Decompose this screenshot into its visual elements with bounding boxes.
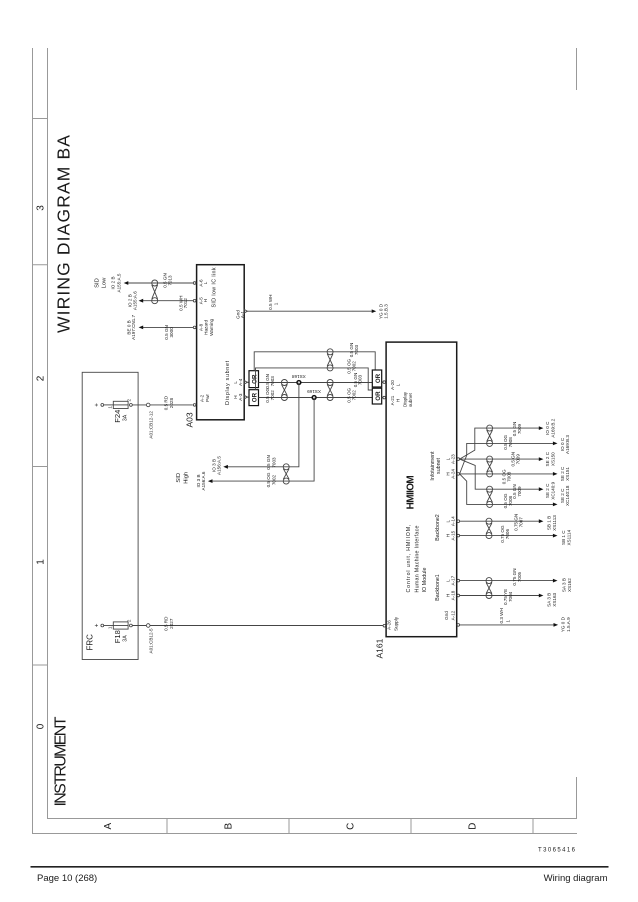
twisted pair symbol SID high — [283, 464, 289, 484]
svg-text:A156:A.5: A156:A.5 — [217, 456, 222, 475]
svg-text:C: C — [346, 823, 357, 830]
svg-text:3A: 3A — [123, 414, 129, 421]
svg-text:3: 3 — [35, 205, 46, 211]
twisted pair symbol infotainment mid — [487, 456, 493, 477]
svg-text:1: 1 — [505, 620, 510, 623]
svg-text:SB 1 C: SB 1 C — [561, 530, 566, 545]
pin A-21 H — [383, 395, 400, 405]
twisted pair symbol below splices — [327, 380, 333, 401]
svg-text:7008: 7008 — [507, 471, 512, 482]
svg-text:7009: 7009 — [515, 454, 520, 465]
svg-text:0.5 WH: 0.5 WH — [268, 294, 273, 309]
svg-text:A-18: A-18 — [450, 590, 455, 600]
svg-text:A169:B.2: A169:B.2 — [550, 418, 555, 437]
label Infotainment subnet pins A-24 A-23 — [430, 451, 460, 481]
svg-text:7013: 7013 — [168, 275, 173, 286]
label Display subnet A161 — [403, 391, 413, 407]
wire A-24 branch left to SE 2 C XC140:18 — [460, 474, 570, 509]
svg-text:0.5 RD: 0.5 RD — [164, 395, 169, 410]
pin Gnd A-12 — [444, 610, 459, 626]
wire label 0.5 RD 2028 — [164, 395, 174, 410]
svg-text:1.5.B.3: 1.5.B.3 — [384, 304, 389, 319]
wire label 0.5 RD 2027 — [164, 616, 174, 631]
wire A-6 to IO 2 B A155:A.5 — [111, 273, 194, 292]
svg-text:HMIIOM: HMIIOM — [406, 475, 417, 509]
wire jog OR A-3 to A161 OR A-21 — [256, 358, 373, 390]
wire A-5 to IO 2 B A155:A.6 — [127, 291, 193, 310]
svg-text:D: D — [468, 823, 479, 830]
svg-text:Backbone2: Backbone2 — [435, 514, 441, 541]
svg-text:XC140:9: XC140:9 — [550, 481, 555, 499]
wire F24 to A03 A-2 pwr — [132, 404, 193, 406]
svg-text:Wiring diagram: Wiring diagram — [544, 873, 608, 884]
svg-text:7002: 7002 — [351, 390, 356, 401]
twisted pair symbol SID low — [152, 280, 158, 304]
svg-text:7008: 7008 — [508, 437, 513, 448]
svg-text:SE 2 C: SE 2 C — [560, 466, 565, 481]
svg-text:0.3 WH: 0.3 WH — [499, 608, 504, 623]
svg-text:7002: 7002 — [351, 361, 356, 372]
connector A01:CB12-5 — [146, 624, 153, 654]
svg-text:T3065416: T3065416 — [538, 848, 576, 854]
svg-text:WIRING DIAGRAM BA: WIRING DIAGRAM BA — [54, 135, 74, 333]
svg-text:subnet: subnet — [436, 458, 442, 474]
svg-text:7002: 7002 — [270, 390, 275, 401]
svg-text:Gnd: Gnd — [444, 611, 449, 620]
wire A-24 branch right to IO 0 C A169:B.3 — [460, 434, 570, 473]
svg-text:A-3: A-3 — [238, 393, 243, 401]
svg-text:SA 3 B: SA 3 B — [547, 593, 552, 607]
wire A-15 H 0.75 OG 7006 to SB 1 C XS1114 — [460, 525, 572, 546]
fuse F18 3A — [93, 619, 132, 643]
svg-text:SID low IC link: SID low IC link — [211, 267, 217, 307]
svg-text:2: 2 — [35, 375, 46, 381]
svg-text:A-21: A-21 — [390, 395, 395, 405]
pin A-5 H — [193, 297, 208, 305]
svg-text:Backbone1: Backbone1 — [435, 574, 441, 601]
pin A-2 Pwr — [193, 394, 210, 407]
svg-text:7003: 7003 — [358, 374, 363, 385]
svg-text:1.5.A.9: 1.5.A.9 — [566, 617, 571, 632]
svg-text:IO Module: IO Module — [422, 567, 428, 592]
wire label 0.5 GN 3000 — [164, 325, 174, 340]
svg-text:A169:B.3: A169:B.3 — [565, 435, 570, 454]
svg-text:INSTRUMENT: INSTRUMENT — [53, 716, 70, 806]
wire F18 to A161 A-26 supply — [132, 625, 383, 627]
svg-text:A-14: A-14 — [450, 516, 455, 526]
pin A-3 H — [233, 393, 248, 401]
svg-text:7009: 7009 — [517, 486, 522, 497]
wire A-8 to BE 0 B A197:CN1.7 — [126, 314, 193, 339]
svg-text:A155:A.6: A155:A.6 — [132, 291, 137, 310]
fuse F24 3A — [93, 399, 132, 423]
svg-text:7012: 7012 — [183, 298, 188, 309]
svg-text:OR: OR — [375, 391, 382, 401]
svg-text:subnet: subnet — [408, 392, 413, 407]
svg-text:SE 2 C: SE 2 C — [560, 488, 565, 503]
svg-text:H: H — [395, 399, 400, 402]
svg-text:SB 1 B: SB 1 B — [547, 516, 552, 530]
wire label 0.5 OG 7002 SID high — [266, 472, 276, 487]
svg-text:7004: 7004 — [508, 591, 513, 602]
splice XS169 — [307, 389, 321, 399]
svg-text:OR: OR — [252, 392, 259, 402]
svg-text:0.5 RD: 0.5 RD — [164, 616, 169, 631]
twisted pair symbol above splices — [281, 380, 287, 401]
wire A-23 straight to SE 2 C XS150 — [460, 451, 556, 466]
svg-text:A01:CB12-12: A01:CB12-12 — [149, 411, 154, 439]
wire label 0.5 WH 7012 — [178, 296, 188, 311]
pin A-26 Supply — [383, 616, 399, 631]
OR marker A161 A-21 — [372, 388, 383, 404]
svg-text:3000: 3000 — [169, 327, 174, 338]
svg-text:Control unit, HMIIOM,: Control unit, HMIIOM, — [406, 525, 412, 593]
wire A-23 branch left to SE 2 C XC140:9 — [460, 459, 556, 500]
svg-text:0: 0 — [35, 723, 46, 729]
svg-text:IO 0 C: IO 0 C — [545, 421, 550, 435]
svg-text:A-26: A-26 — [387, 620, 392, 630]
label SID low IC link — [211, 267, 217, 307]
label Backbone2 pins A-15 A-14 — [435, 514, 460, 541]
svg-text:B: B — [224, 823, 235, 830]
svg-text:SA 3 B: SA 3 B — [561, 578, 566, 592]
svg-text:XS169: XS169 — [307, 389, 321, 394]
wire XS169 to IO 3 B A156:A.6 — [196, 398, 314, 491]
wire label 0.5 GN 7013 — [163, 273, 173, 288]
svg-text:2: 2 — [127, 619, 132, 622]
pin A-20 L — [383, 380, 400, 390]
pin A-4 L — [233, 378, 248, 386]
wire A-4 L 0.5 GN 7003 down to A161 A-20 — [259, 373, 373, 389]
wire A-18 H 0.75 YE 7004 to SA 3 B XS163 — [460, 589, 557, 607]
wire A-17 L 0.75 GN 7005 to SA 3 B XS162 — [460, 568, 572, 592]
svg-text:7005: 7005 — [517, 571, 522, 582]
OR marker A161 A-20 — [372, 370, 383, 387]
svg-text:XS163: XS163 — [552, 592, 557, 606]
svg-text:XS162: XS162 — [567, 578, 572, 592]
wire A-3 H 0.5 OG 7002 down to A161 A-21 — [259, 387, 373, 402]
svg-text:FRC: FRC — [86, 634, 95, 651]
svg-text:A-4: A-4 — [238, 378, 243, 386]
svg-text:Low: Low — [101, 277, 107, 288]
label SID Low — [95, 277, 108, 288]
svg-text:7009: 7009 — [517, 423, 522, 434]
fuse box FRC — [82, 372, 138, 659]
pin A-6 L — [193, 279, 208, 287]
svg-text:1: 1 — [108, 406, 113, 409]
svg-text:F18: F18 — [113, 630, 122, 643]
svg-text:A155:A.5: A155:A.5 — [116, 273, 121, 292]
svg-text:A01:CB12-5: A01:CB12-5 — [149, 628, 154, 653]
svg-text:3A: 3A — [123, 635, 129, 642]
svg-text:High: High — [183, 472, 189, 484]
svg-text:2027: 2027 — [169, 618, 174, 629]
svg-text:XS168: XS168 — [292, 374, 306, 379]
svg-text:+: + — [93, 623, 100, 627]
svg-text:2028: 2028 — [169, 398, 174, 409]
svg-text:F24: F24 — [113, 410, 122, 423]
svg-text:7003: 7003 — [271, 457, 276, 468]
svg-text:Display: Display — [403, 391, 408, 407]
svg-text:H: H — [203, 299, 208, 302]
svg-text:7008: 7008 — [508, 495, 513, 506]
wire Gnd A-1 to ground YG 0 D 1.5.B.3 — [247, 294, 388, 319]
svg-text:A-23: A-23 — [450, 454, 455, 464]
svg-text:1: 1 — [35, 559, 46, 565]
ECU A161 HMIIOM — [375, 342, 457, 658]
ECU A03 display unit — [184, 265, 244, 428]
svg-text:2: 2 — [127, 399, 132, 402]
svg-text:XS150: XS150 — [550, 452, 555, 466]
svg-text:1: 1 — [274, 302, 279, 305]
svg-text:A03: A03 — [184, 412, 194, 427]
label Display subnet — [225, 360, 231, 405]
svg-text:A-20: A-20 — [390, 380, 395, 390]
svg-text:A156:A.6: A156:A.6 — [201, 471, 206, 490]
svg-text:+: + — [93, 403, 100, 407]
svg-text:A-17: A-17 — [450, 575, 455, 585]
svg-text:Warning: Warning — [209, 318, 214, 335]
svg-text:Human Machine Interface: Human Machine Interface — [415, 525, 421, 592]
svg-text:SID: SID — [95, 278, 101, 288]
svg-text:7002: 7002 — [271, 474, 276, 485]
connector A01:CB12-12 — [146, 403, 153, 438]
pin Gnd A-1 — [236, 309, 248, 318]
svg-text:IO 2 B: IO 2 B — [111, 276, 116, 289]
OR marker A03 A-3 — [247, 390, 258, 406]
wire A-24 straight to SE 2 C XS151 — [460, 466, 570, 484]
svg-text:SE 2 C: SE 2 C — [545, 451, 550, 466]
label SID High — [176, 472, 190, 484]
wire Gnd A-12 to ground YG 0 D 1.5.A.9 — [460, 608, 571, 632]
svg-text:XS1113: XS1113 — [552, 515, 557, 531]
wire A-14 L 0.75 GN 7007 to SB 1 B XS1113 — [460, 514, 557, 531]
wire A-23 branch right to IO 0 C A169:B.2 — [460, 418, 556, 459]
svg-text:7003: 7003 — [270, 376, 275, 387]
label Backbone1 pins A-18 A-17 — [435, 574, 460, 601]
svg-text:L: L — [395, 383, 400, 386]
svg-text:XS151: XS151 — [565, 467, 570, 481]
svg-text:A-8: A-8 — [198, 323, 203, 331]
svg-text:XS1114: XS1114 — [566, 529, 571, 545]
OR marker A03 A-4 — [247, 371, 258, 388]
svg-text:A-24: A-24 — [450, 469, 455, 479]
svg-text:YG 0 D: YG 0 D — [561, 616, 566, 632]
svg-text:7007: 7007 — [518, 517, 523, 528]
svg-text:SID: SID — [176, 473, 182, 483]
svg-text:Display subnet: Display subnet — [225, 360, 231, 405]
svg-text:SE 2 C: SE 2 C — [545, 483, 550, 498]
svg-text:Pwr: Pwr — [205, 394, 210, 402]
svg-text:IO 0 C: IO 0 C — [560, 437, 565, 451]
svg-text:A-12: A-12 — [450, 610, 455, 620]
svg-text:7003: 7003 — [354, 344, 359, 355]
wire label 0.5 GN 7003 SID high — [266, 455, 276, 470]
twisted pair symbol infotainment right — [487, 425, 493, 446]
svg-text:OR: OR — [375, 373, 382, 383]
svg-text:A-15: A-15 — [450, 530, 455, 540]
svg-text:7006: 7006 — [505, 529, 510, 540]
svg-text:A: A — [103, 823, 114, 830]
svg-text:XC140:18: XC140:18 — [565, 485, 570, 506]
svg-text:A161: A161 — [375, 638, 385, 658]
svg-text:Page 10 (268): Page 10 (268) — [37, 873, 97, 884]
twisted pair symbol infotainment left — [487, 486, 493, 507]
twisted pair symbol Backbone1 — [486, 578, 492, 599]
splice XS168 — [292, 374, 306, 384]
twisted pair symbol jog pair — [327, 349, 333, 371]
svg-text:Supply: Supply — [394, 616, 399, 631]
pin A-8 Hazard Warning — [193, 318, 214, 335]
svg-text:Hazard: Hazard — [204, 320, 209, 335]
twisted pair symbol Backbone2 — [486, 518, 492, 538]
wire XS168 to IO 3 B A156:A.5 — [212, 383, 299, 475]
wire jog OR A-4 to A161 OR A-20 — [254, 343, 375, 371]
svg-text:1: 1 — [108, 626, 113, 629]
svg-text:A197:CN1.7: A197:CN1.7 — [131, 314, 136, 339]
svg-text:L: L — [203, 281, 208, 284]
